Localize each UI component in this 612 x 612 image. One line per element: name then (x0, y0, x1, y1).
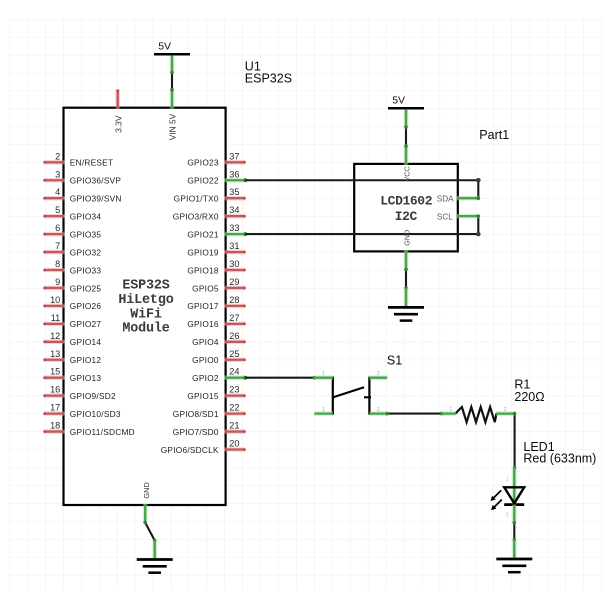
svg-text:GPIO13: GPIO13 (70, 373, 102, 383)
power +5V symbol (VIN) (154, 41, 190, 73)
svg-text:35: 35 (229, 187, 239, 197)
pin 1 LED1 anode (506, 468, 514, 504)
pin 7 GPIO32 (left) (43, 241, 101, 257)
pin 12 GPIO14 (left) (43, 331, 101, 347)
svg-text:GPIO22: GPIO22 (187, 176, 219, 186)
svg-text:GPIO33: GPIO33 (70, 265, 102, 275)
pin GND (LCD bottom) (403, 230, 412, 270)
svg-text:GPIO6/SDCLK: GPIO6/SDCLK (161, 445, 219, 455)
wire S1 to R1 (385, 412, 443, 416)
svg-text:SDA: SDA (437, 195, 454, 204)
svg-text:GPIO8/SD1: GPIO8/SD1 (173, 409, 219, 419)
pin 1 S1 top-left (314, 371, 333, 378)
pin 2 LED1 cathode (506, 505, 514, 523)
svg-text:VIN 5V: VIN 5V (168, 113, 178, 140)
svg-text:31: 31 (229, 241, 239, 251)
pin 8 GPIO33 (left) (43, 259, 101, 275)
svg-text:ESP32S: ESP32S (122, 279, 169, 294)
pin SCL (LCD right) (437, 213, 480, 222)
pin VCC (LCD top) (403, 146, 412, 182)
svg-text:3.3V: 3.3V (113, 115, 123, 133)
svg-text:21: 21 (229, 421, 239, 431)
svg-text:28: 28 (229, 295, 239, 305)
pin 2 R1 (496, 407, 515, 414)
svg-text:GPIO21: GPIO21 (187, 229, 219, 239)
pin 16 GPIO9/SD2 (left) (43, 385, 116, 401)
pin 35 GPIO1/TX0 (right) (174, 187, 246, 203)
svg-text:GPIO15: GPIO15 (187, 391, 219, 401)
svg-text:GPIO18: GPIO18 (187, 265, 219, 275)
svg-text:26: 26 (229, 331, 239, 341)
pin 31 GPIO19 (right) (187, 241, 245, 257)
svg-text:GPIO27: GPIO27 (70, 319, 102, 329)
ground symbol (LED1) (496, 559, 532, 572)
svg-text:36: 36 (229, 169, 239, 179)
svg-text:GPIO35: GPIO35 (70, 229, 102, 239)
label R1 220 (514, 378, 544, 404)
svg-text:GPIO23: GPIO23 (187, 158, 219, 168)
power +5V symbol (LCD) (388, 95, 424, 127)
svg-text:GPIO34: GPIO34 (70, 211, 102, 221)
pin 5 GPIO34 (left) (43, 205, 101, 221)
pin 1 R1 (442, 407, 456, 414)
svg-text:Part1: Part1 (479, 128, 509, 142)
svg-text:13: 13 (50, 349, 60, 359)
svg-text:220Ω: 220Ω (514, 390, 544, 404)
pin 26 GPIO4 (right) (192, 331, 246, 347)
svg-text:24: 24 (229, 367, 239, 377)
pin 13 GPIO12 (left) (43, 349, 101, 365)
svg-text:6: 6 (55, 223, 60, 233)
svg-text:GPIO3/RX0: GPIO3/RX0 (173, 211, 219, 221)
switch S1 (333, 377, 371, 415)
IC U1 ESP32S module body (64, 108, 226, 505)
svg-text:GPIO19: GPIO19 (187, 247, 219, 257)
svg-text:1: 1 (322, 407, 325, 413)
svg-text:EN/RESET: EN/RESET (70, 158, 114, 168)
wire GPIO21 to SCL (245, 216, 480, 236)
svg-text:GPIO0: GPIO0 (192, 355, 219, 365)
svg-text:GPIO32: GPIO32 (70, 247, 102, 257)
svg-text:HiLetgo: HiLetgo (118, 293, 173, 308)
svg-text:5: 5 (55, 205, 60, 215)
svg-text:2: 2 (504, 407, 507, 413)
wire 5V symbol to LCD VCC (404, 125, 408, 148)
LCD module Part1 body (354, 164, 458, 252)
svg-text:GPIO10/SD3: GPIO10/SD3 (70, 409, 121, 419)
wire LCD GND to ground (404, 268, 408, 290)
svg-text:8: 8 (55, 259, 60, 269)
pin 18 GPIO11/SDCMD (left) (43, 421, 135, 437)
svg-text:GPIO1/TX0: GPIO1/TX0 (174, 194, 219, 204)
wire U1 GND to ground (143, 521, 156, 543)
svg-text:GPIO9/SD2: GPIO9/SD2 (70, 391, 116, 401)
pin 4 GPIO39/SVN (left) (43, 187, 121, 203)
svg-text:2: 2 (377, 371, 380, 377)
pin 24 GPIO2 (right) (192, 367, 247, 383)
resistor R1 220ohm (455, 407, 496, 422)
svg-text:GPIO5: GPIO5 (192, 283, 219, 293)
pin 2 S1 top-right (369, 371, 387, 378)
svg-text:30: 30 (229, 259, 239, 269)
wire LED1 cathode to ground (513, 521, 517, 541)
svg-text:GPIO14: GPIO14 (70, 337, 102, 347)
svg-text:1: 1 (322, 371, 325, 377)
pin 28 GPIO17 (right) (187, 295, 245, 311)
svg-text:VCC: VCC (403, 166, 412, 181)
pin 11 GPIO27 (left) (43, 313, 101, 329)
svg-text:1: 1 (506, 477, 509, 483)
pin 15 GPIO13 (left) (43, 367, 101, 383)
svg-text:25: 25 (229, 349, 239, 359)
svg-text:16: 16 (50, 385, 60, 395)
svg-text:GPIO2: GPIO2 (192, 373, 219, 383)
svg-text:Red (633nm): Red (633nm) (523, 452, 596, 466)
svg-text:18: 18 (50, 421, 60, 431)
svg-text:7: 7 (55, 241, 60, 251)
pin 2 EN/RESET (left) (43, 151, 113, 167)
ground pin (below LCD) (404, 288, 409, 306)
pin VIN 5V (top, connected) (168, 90, 178, 141)
label LED1 (523, 440, 596, 466)
pin 6 GPIO35 (left) (43, 223, 101, 239)
pin 21 GPIO7/SD0 (right) (173, 421, 246, 437)
svg-text:SCL: SCL (437, 213, 453, 222)
ground symbol (U1) (137, 560, 173, 573)
wire R1 to LED1 anode (496, 414, 514, 468)
svg-text:GPIO26: GPIO26 (70, 301, 102, 311)
pin 37 GPIO23 (right) (187, 151, 245, 167)
pin 9 GPIO25 (left) (43, 277, 101, 293)
svg-text:22: 22 (229, 403, 239, 413)
pin 3.3V (top, unconnected) (113, 89, 123, 133)
svg-text:10: 10 (50, 295, 60, 305)
svg-text:GPIO16: GPIO16 (187, 319, 219, 329)
svg-text:20: 20 (229, 439, 239, 449)
svg-text:GPIO11/SDCMD: GPIO11/SDCMD (70, 427, 135, 437)
svg-text:12: 12 (50, 331, 60, 341)
svg-text:15: 15 (50, 367, 60, 377)
svg-text:WiFi: WiFi (130, 307, 162, 322)
svg-text:1: 1 (449, 407, 452, 413)
svg-text:4: 4 (55, 187, 60, 197)
svg-text:37: 37 (229, 151, 239, 161)
svg-text:34: 34 (229, 205, 239, 215)
pin 25 GPIO0 (right) (192, 349, 246, 365)
svg-text:9: 9 (55, 277, 60, 287)
pin 29 GPIO5 (right) (192, 277, 246, 293)
svg-text:Module: Module (122, 322, 169, 337)
pin 3 GPIO36/SVP (left) (43, 169, 121, 185)
svg-text:5V: 5V (158, 41, 171, 53)
pin 23 GPIO15 (right) (187, 385, 245, 401)
pin 1 S1 bottom-left (314, 407, 333, 414)
wire 5V symbol to VIN 5V (170, 71, 174, 92)
pin 30 GPIO18 (right) (187, 259, 245, 275)
svg-text:GPIO4: GPIO4 (192, 337, 219, 347)
svg-text:GPIO7/SD0: GPIO7/SD0 (173, 427, 219, 437)
svg-text:GPIO12: GPIO12 (70, 355, 102, 365)
svg-text:ESP32S: ESP32S (245, 72, 292, 86)
pin 20 GPIO6/SDCLK (right) (161, 439, 246, 455)
svg-text:27: 27 (229, 313, 239, 323)
svg-text:GPIO39/SVN: GPIO39/SVN (70, 194, 122, 204)
ground pin (below LED1) (512, 540, 517, 558)
pin 34 GPIO3/RX0 (right) (173, 205, 246, 221)
svg-text:29: 29 (229, 277, 239, 287)
svg-text:GND: GND (403, 230, 412, 246)
svg-text:2: 2 (377, 407, 380, 413)
svg-text:2: 2 (506, 513, 509, 519)
svg-text:33: 33 (229, 223, 239, 233)
pin 2 S1 bottom-right (369, 407, 387, 414)
pin GND (bottom of U1) (142, 482, 151, 522)
svg-text:23: 23 (229, 385, 239, 395)
svg-text:LCD1602: LCD1602 (380, 194, 432, 209)
wire GPIO22 to SDA (245, 178, 480, 198)
svg-text:I2C: I2C (395, 209, 418, 224)
pin 10 GPIO26 (left) (43, 295, 101, 311)
svg-text:17: 17 (50, 403, 60, 413)
pin 17 GPIO10/SD3 (left) (43, 403, 121, 419)
svg-text:GPIO17: GPIO17 (187, 301, 219, 311)
node R1/LED1 bendpoint (513, 412, 517, 470)
svg-text:GPIO36/SVP: GPIO36/SVP (70, 176, 122, 186)
ground symbol (LCD) (388, 307, 424, 320)
pin 22 GPIO8/SD1 (right) (173, 403, 246, 419)
pin 27 GPIO16 (right) (187, 313, 245, 329)
svg-text:3: 3 (55, 169, 60, 179)
svg-text:2: 2 (55, 151, 60, 161)
wire GPIO2 to S1 (245, 376, 316, 380)
svg-text:GND: GND (142, 482, 151, 498)
svg-text:GPIO25: GPIO25 (70, 283, 102, 293)
svg-text:S1: S1 (387, 353, 402, 367)
label U1 ESP32S (245, 60, 292, 86)
pin SDA (LCD right) (437, 195, 480, 204)
svg-text:5V: 5V (392, 95, 405, 107)
pin 33 GPIO21 (right) (187, 223, 247, 239)
ground pin (below U1) (152, 541, 157, 559)
svg-text:11: 11 (51, 313, 61, 323)
pin 36 GPIO22 (right) (187, 169, 247, 185)
LED LED1 symbol (491, 487, 525, 510)
